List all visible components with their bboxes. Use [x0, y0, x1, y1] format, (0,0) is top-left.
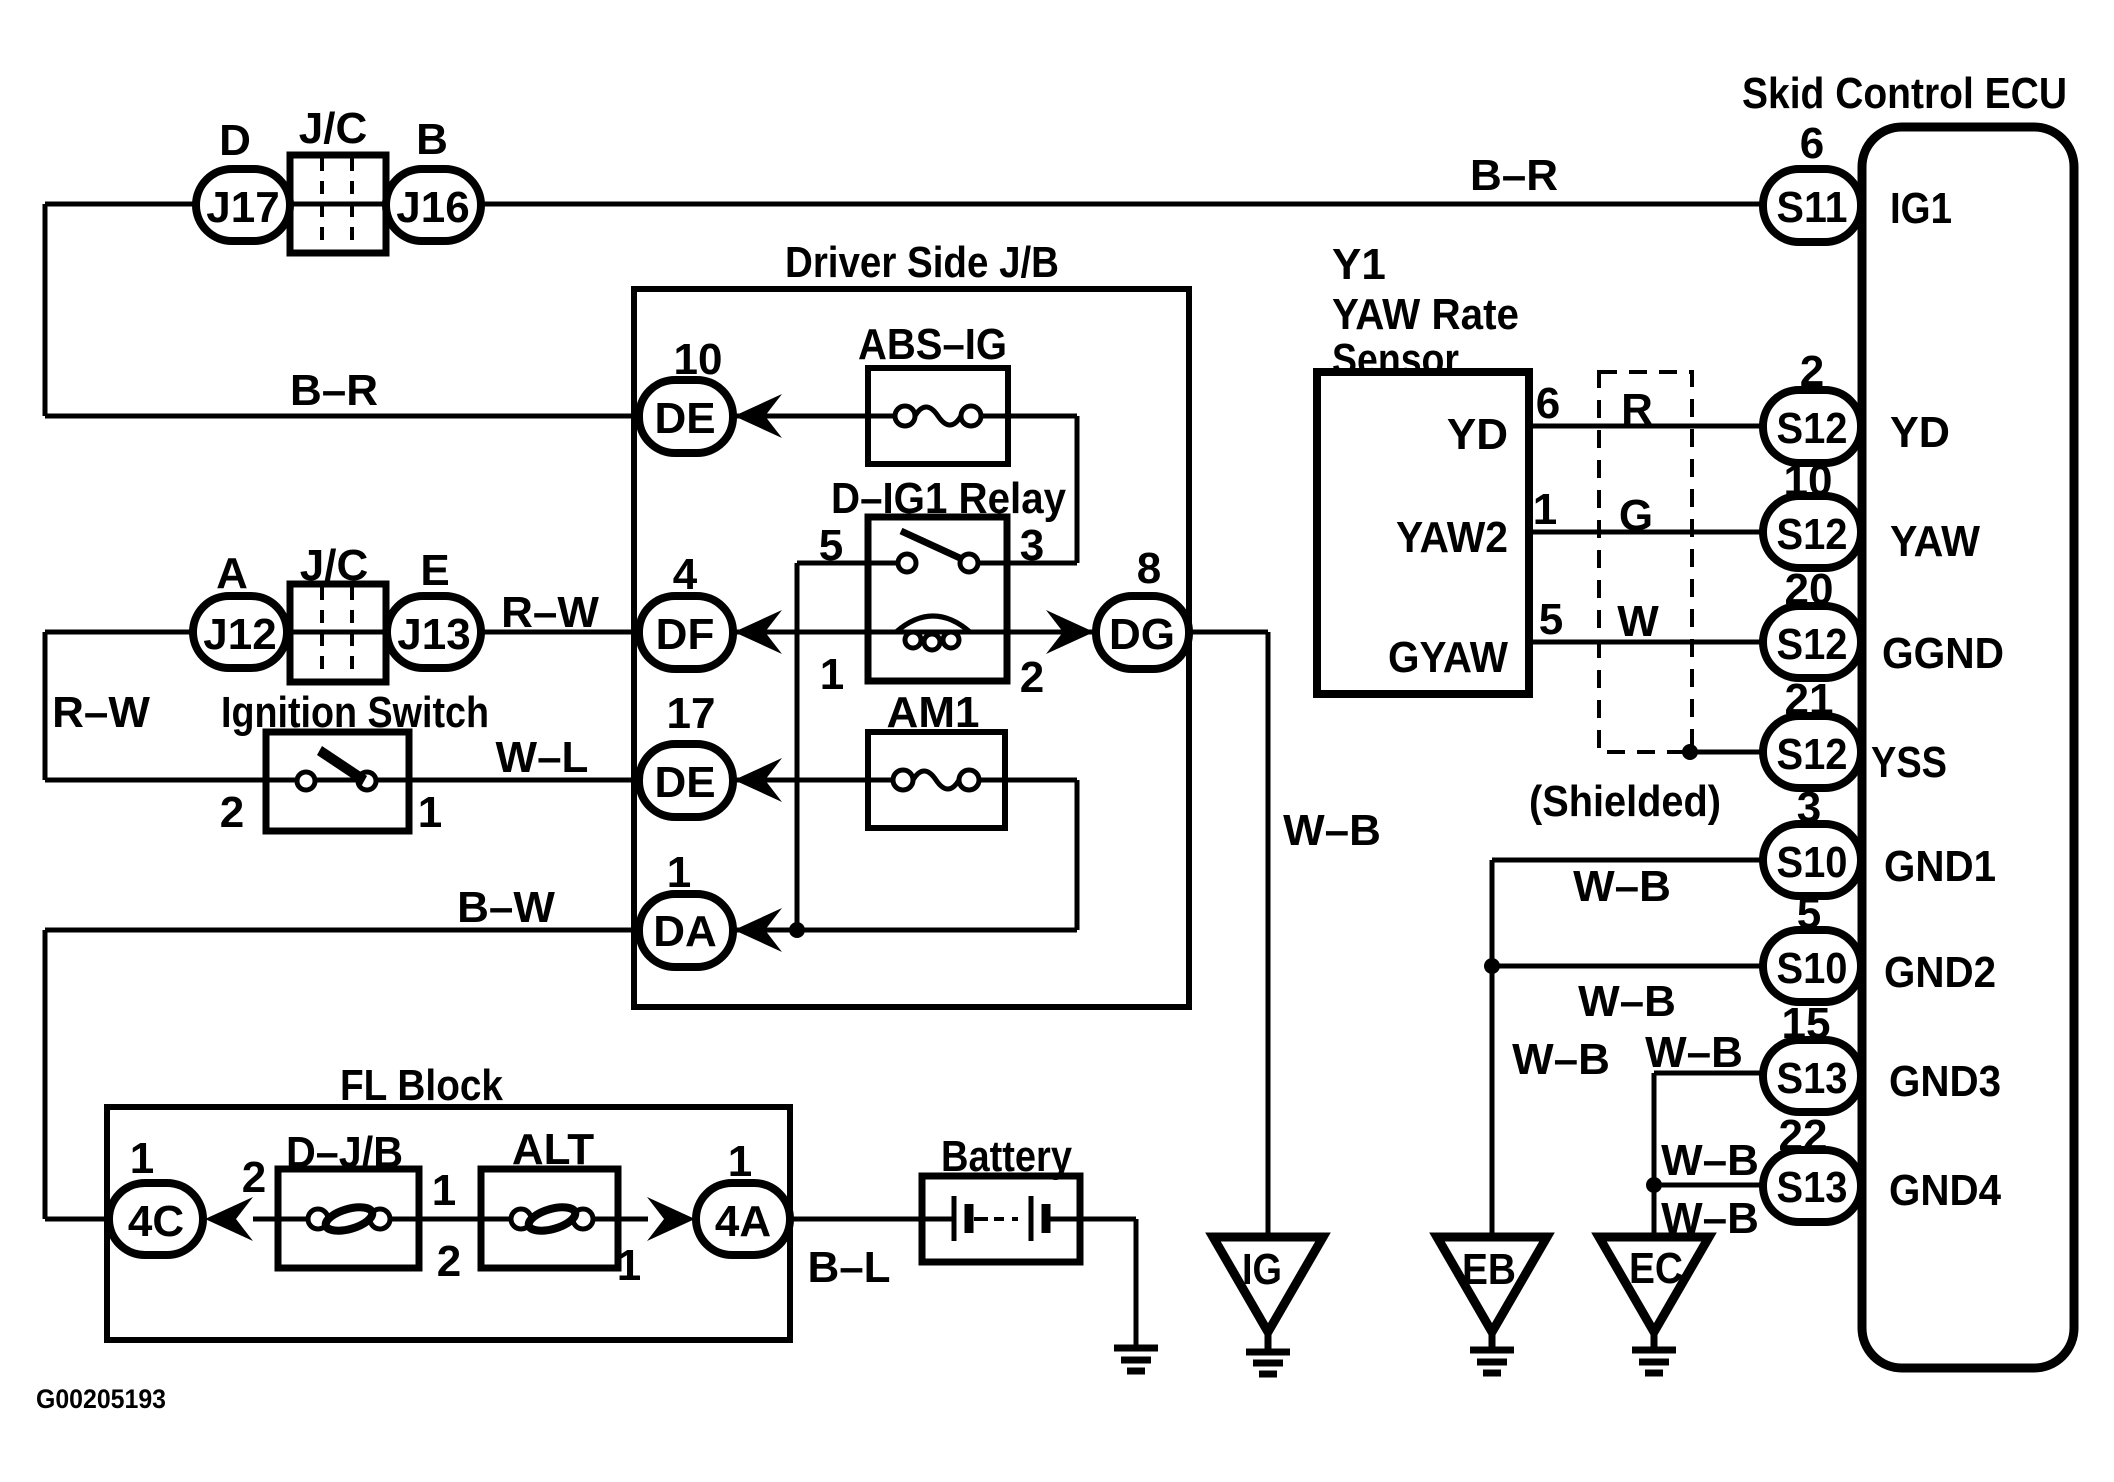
svg-text:22: 22: [1779, 1111, 1828, 1160]
svg-text:DF: DF: [656, 610, 715, 659]
svg-text:1: 1: [667, 848, 691, 897]
svg-text:1: 1: [432, 1166, 456, 1215]
svg-text:Battery: Battery: [941, 1132, 1072, 1181]
svg-text:S11: S11: [1777, 183, 1848, 232]
svg-text:2: 2: [220, 788, 244, 837]
svg-text:3: 3: [1797, 783, 1821, 832]
svg-text:20: 20: [1785, 565, 1834, 614]
svg-text:DE: DE: [654, 758, 715, 807]
svg-text:1: 1: [1533, 485, 1557, 534]
svg-text:3: 3: [1020, 521, 1044, 570]
svg-text:5: 5: [1539, 595, 1563, 644]
svg-text:Y1: Y1: [1332, 240, 1386, 289]
svg-text:EC: EC: [1629, 1244, 1683, 1293]
svg-text:W–B: W–B: [1283, 806, 1381, 855]
svg-text:1: 1: [728, 1137, 752, 1186]
svg-text:D–IG1 Relay: D–IG1 Relay: [831, 474, 1066, 523]
svg-text:J12: J12: [203, 610, 276, 659]
svg-text:DE: DE: [654, 394, 715, 443]
svg-text:8: 8: [1137, 544, 1161, 593]
svg-text:6: 6: [1800, 119, 1824, 168]
svg-text:B–R: B–R: [1470, 151, 1558, 200]
svg-text:17: 17: [667, 689, 716, 738]
svg-text:IG: IG: [1242, 1245, 1282, 1294]
svg-text:1: 1: [130, 1134, 154, 1183]
svg-text:1: 1: [820, 650, 844, 699]
svg-text:YSS: YSS: [1871, 738, 1947, 787]
svg-text:W–B: W–B: [1512, 1035, 1610, 1084]
svg-text:GYAW: GYAW: [1388, 633, 1508, 682]
svg-text:B: B: [416, 115, 448, 164]
svg-text:W–B: W–B: [1573, 862, 1671, 911]
svg-text:EB: EB: [1462, 1245, 1516, 1294]
svg-text:15: 15: [1782, 999, 1831, 1048]
svg-text:4: 4: [673, 550, 698, 599]
svg-text:R: R: [1621, 385, 1653, 434]
svg-text:Sensor: Sensor: [1332, 335, 1459, 384]
svg-text:W–B: W–B: [1661, 1194, 1759, 1243]
svg-text:YAW2: YAW2: [1396, 513, 1508, 562]
svg-text:10: 10: [1784, 456, 1833, 505]
svg-text:J/C: J/C: [300, 541, 368, 590]
svg-text:AM1: AM1: [887, 688, 980, 737]
svg-text:4C: 4C: [128, 1197, 184, 1246]
svg-text:J16: J16: [396, 183, 469, 232]
svg-text:R–W: R–W: [52, 688, 150, 737]
svg-text:5: 5: [819, 521, 843, 570]
svg-text:GND3: GND3: [1889, 1057, 2001, 1106]
svg-text:W–B: W–B: [1661, 1136, 1759, 1185]
svg-text:B–L: B–L: [807, 1243, 890, 1292]
svg-text:YAW: YAW: [1890, 517, 1980, 566]
svg-text:(Shielded): (Shielded): [1529, 777, 1721, 826]
svg-text:2: 2: [1020, 653, 1044, 702]
svg-text:YD: YD: [1447, 410, 1508, 459]
svg-text:GND4: GND4: [1889, 1166, 2001, 1215]
svg-text:G00205193: G00205193: [36, 1384, 166, 1414]
svg-text:S12: S12: [1777, 404, 1848, 453]
svg-text:ALT: ALT: [512, 1125, 594, 1174]
svg-text:4A: 4A: [715, 1197, 771, 1246]
svg-text:J/C: J/C: [299, 104, 367, 153]
svg-text:S13: S13: [1777, 1163, 1848, 1212]
svg-text:GND2: GND2: [1884, 948, 1996, 997]
svg-text:S12: S12: [1777, 620, 1848, 669]
svg-text:W–B: W–B: [1645, 1028, 1743, 1077]
svg-text:2: 2: [242, 1153, 266, 1202]
svg-text:S12: S12: [1777, 510, 1848, 559]
svg-text:10: 10: [674, 335, 723, 384]
svg-text:YD: YD: [1890, 408, 1950, 457]
svg-text:21: 21: [1785, 675, 1834, 724]
svg-text:G: G: [1619, 491, 1653, 540]
svg-text:2: 2: [437, 1237, 461, 1286]
svg-text:W–B: W–B: [1578, 977, 1676, 1026]
svg-text:R–W: R–W: [501, 588, 599, 637]
svg-text:B–R: B–R: [290, 366, 378, 415]
svg-text:S10: S10: [1777, 944, 1848, 993]
svg-text:B–W: B–W: [457, 883, 555, 932]
svg-text:J17: J17: [206, 183, 279, 232]
svg-text:D: D: [219, 116, 251, 165]
svg-text:Driver Side J/B: Driver Side J/B: [785, 238, 1059, 287]
svg-text:W: W: [1617, 597, 1659, 646]
svg-text:1: 1: [418, 788, 442, 837]
svg-text:D–J/B: D–J/B: [286, 1128, 403, 1177]
svg-text:E: E: [420, 546, 449, 595]
svg-text:FL Block: FL Block: [340, 1061, 503, 1110]
svg-text:2: 2: [1800, 347, 1824, 396]
svg-text:S13: S13: [1777, 1054, 1848, 1103]
svg-text:W–L: W–L: [496, 733, 589, 782]
svg-text:J13: J13: [397, 610, 470, 659]
svg-text:DG: DG: [1109, 610, 1175, 659]
svg-text:5: 5: [1797, 889, 1821, 938]
svg-text:S10: S10: [1777, 838, 1848, 887]
svg-text:YAW Rate: YAW Rate: [1332, 290, 1519, 339]
svg-text:1: 1: [617, 1241, 641, 1290]
svg-text:Ignition Switch: Ignition Switch: [221, 688, 489, 737]
svg-text:6: 6: [1536, 379, 1560, 428]
svg-text:GGND: GGND: [1882, 629, 2004, 678]
svg-text:Skid Control ECU: Skid Control ECU: [1742, 69, 2067, 118]
svg-text:ABS–IG: ABS–IG: [858, 320, 1007, 369]
svg-text:S12: S12: [1777, 730, 1848, 779]
svg-text:IG1: IG1: [1890, 184, 1952, 233]
svg-text:GND1: GND1: [1884, 842, 1996, 891]
svg-text:A: A: [216, 549, 248, 598]
svg-text:DA: DA: [653, 907, 717, 956]
